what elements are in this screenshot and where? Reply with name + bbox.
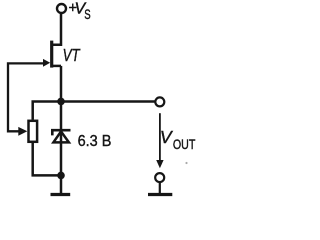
wire: VT gate to potentiometer wiper bbox=[8, 63, 44, 131]
terminal bottom right bbox=[155, 173, 164, 182]
zener diode VD 6.3V bbox=[52, 130, 70, 142]
svg-text:VT: VT bbox=[63, 45, 81, 65]
wire: node A to VOUT terminal bbox=[61, 100, 155, 103]
potentiometer R bbox=[18, 121, 37, 142]
label +VS bbox=[69, 1, 91, 22]
terminal +VS bbox=[57, 4, 66, 13]
label VOUT bbox=[160, 127, 196, 152]
terminal VOUT bbox=[155, 97, 164, 106]
speck artifact bbox=[185, 162, 187, 164]
ground bar right bbox=[148, 193, 172, 196]
node B junction bbox=[57, 172, 65, 180]
node A junction bbox=[57, 98, 65, 106]
svg-text:OUT: OUT bbox=[173, 137, 196, 152]
svg-text:6.3 В: 6.3 В bbox=[78, 133, 112, 150]
wire: node A through zener to ground bar bbox=[60, 102, 63, 194]
svg-text:S: S bbox=[84, 6, 90, 22]
wire: +VS terminal to VT drain bbox=[53, 13, 61, 45]
arrow VOUT bbox=[156, 113, 163, 168]
wire: potentiometer bottom to node B bbox=[33, 143, 61, 175]
wire: node A to potentiometer top bbox=[33, 102, 61, 120]
transistor VT (JFET) bbox=[43, 41, 61, 68]
wire: bottom terminal to ground bar bbox=[159, 183, 161, 194]
ground bar left bbox=[51, 193, 71, 196]
wire: VT source to node A bbox=[60, 66, 63, 102]
